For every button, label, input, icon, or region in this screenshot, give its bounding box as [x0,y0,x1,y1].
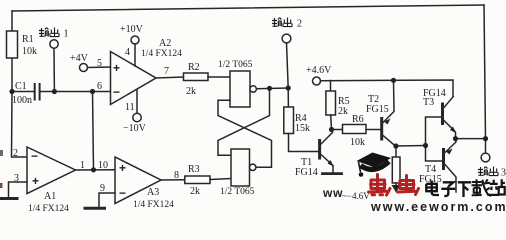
ground T1 emitter [323,172,342,175]
svg-text:−10V: −10V [123,123,147,134]
wire output3 stub [485,139,487,154]
node feedback top [90,89,95,94]
node output2 R4 [286,85,291,90]
wire pin4 [134,44,136,66]
svg-text:R2: R2 [188,62,200,73]
svg-text:ww: ww [322,186,343,200]
wire A1 pin3 to ground [9,182,28,197]
watermark bug2 [398,176,419,195]
wire R3 to gate2 [210,179,231,180]
terminal +4.6V [313,77,321,85]
svg-text:1: 1 [80,160,85,171]
CJK glyph strokes: 输出 labels [39,18,506,179]
svg-text:1/4 FX124: 1/4 FX124 [133,200,174,210]
transistor T2 collector [383,136,396,147]
svg-text:2: 2 [297,19,302,30]
wire A3 pin8 out [161,179,185,181]
svg-text:R6: R6 [352,114,364,125]
arrow T3 emitter [450,127,456,134]
arrow T2 emitter pnp [384,119,391,125]
node C1 left rail [9,89,14,94]
ground A1 pin3 [0,197,17,200]
transistor T4 collector down [445,165,456,193]
svg-text:2k: 2k [190,186,200,197]
terminal output3 [481,153,490,162]
wire R6 to T2 base [366,129,380,131]
gate U1 output bubble [250,86,256,92]
wire output1 down [53,48,55,91]
wire C1 line left [12,91,35,93]
svg-text:+4.6V: +4.6V [306,65,332,76]
watermark text zi [441,182,455,196]
wire T2 collector node line [396,145,426,148]
transistor T1 base bar [318,141,321,159]
resistor R5 [326,91,336,115]
gate U1 1/2 T065 top [230,71,250,107]
terminal +4V [80,64,88,72]
svg-text:10: 10 [98,160,108,171]
watermark cap brim [361,162,390,170]
svg-text:C1: C1 [15,81,27,92]
svg-text:+: + [113,61,120,75]
node output3 frame [483,136,488,141]
wire gate1 output line [256,87,288,90]
svg-text:1/4 FX124: 1/4 FX124 [141,49,182,59]
wire R4 to T1 base [289,134,319,152]
svg-text:+4V: +4V [70,53,89,64]
node R5 R6 T1c [329,127,334,132]
wire node to R6 [332,129,343,131]
transistor T3 base bar [441,104,444,124]
svg-text:1/2 T065: 1/2 T065 [218,60,253,70]
node T3 T4 base [423,143,428,148]
transistor T3 emitter [444,121,456,139]
op-amp A1 [27,147,76,194]
watermark text xia [458,182,472,197]
wire right frame down to output3 node [484,5,486,139]
svg-text:7: 7 [164,66,169,77]
svg-text:+: + [32,174,39,188]
svg-text:3: 3 [14,173,19,184]
node output1 tap [52,89,57,94]
transistor T2 emitter to rail [383,80,394,122]
svg-text:2k: 2k [186,86,196,97]
wire T3 base [426,117,442,146]
wire R2 to gate1 [208,76,230,78]
svg-text:www.eeworm.com: www.eeworm.com [370,200,506,212]
wire R5 top [330,81,332,92]
svg-text:100n: 100n [12,95,32,106]
gate U2 output bubble [250,164,256,170]
terminal output2 [282,34,291,43]
wire A1 output to A3 pin10 [76,169,116,171]
svg-text:9: 9 [100,183,105,194]
svg-text:2k: 2k [338,106,348,117]
node gate1 out cross [267,86,272,91]
svg-text:6: 6 [97,81,102,92]
transistor T1 collector [321,130,333,145]
wire +4.6V rail [321,80,454,96]
wire output2 down to R4 [287,43,289,107]
wire A2 pin7 out [156,77,184,78]
wire left rail lower [12,92,28,158]
watermark bug1 [369,175,391,196]
svg-text:R3: R3 [188,164,200,175]
svg-text:−: − [119,186,126,200]
svg-text:8: 8 [174,170,179,181]
wire R5 bottom to node [330,115,333,130]
svg-text:R1: R1 [22,34,34,45]
wire R7 bottom [395,183,397,185]
scan artifact left edge upper [0,150,3,156]
svg-text:~−4.6V: ~−4.6V [342,191,370,201]
wire top feedback rail [12,5,484,11]
transistor T3 collector [444,97,453,108]
svg-text:3: 3 [501,168,506,179]
svg-text:A2: A2 [159,38,171,49]
svg-text:1: 1 [64,29,69,40]
terminal output1 [50,40,58,48]
resistor R3 [185,176,210,184]
svg-text:−: − [113,85,120,99]
wire load resistor to -4.6V [395,146,397,157]
op-amp A2 [111,52,157,105]
terminal +10V [131,36,139,44]
wire pin11 [136,90,138,114]
transistor T4 emitter top [445,139,456,153]
svg-text:A1: A1 [44,191,56,202]
watermark text dian [426,181,439,196]
arrow T1 emitter [328,160,334,167]
svg-text:+10V: +10V [120,24,144,35]
svg-text:15k: 15k [295,123,310,134]
op-amp A3 [115,157,161,204]
gate U2 1/2 T065 bottom [231,149,250,186]
labels latin [12,24,446,214]
watermark cap top [357,153,392,168]
svg-text:+: + [119,161,126,175]
resistor R6 [343,125,367,134]
label output2 chinese shu [272,18,292,27]
terminal -10V [133,113,141,121]
svg-text:4: 4 [125,47,130,58]
watermark text zhan [489,179,505,195]
svg-text:10k: 10k [22,46,37,57]
wire C1 line to pin6 [40,91,111,93]
watermark text zai [472,179,492,196]
opamp plus minus signs [31,61,126,200]
resistor R7 load [392,157,400,183]
node T2 emitter rail [391,78,396,83]
wire A3 pin9 to ground [99,193,115,207]
wire cross-couple P1 gate1out to gate2in [218,88,270,155]
svg-text:2: 2 [13,148,18,159]
wire A1 feedback vertical [93,92,94,170]
svg-text:10k: 10k [350,137,365,148]
resistor R2 [184,73,209,81]
svg-text:5: 5 [97,58,102,69]
arrow -4.6V supply [392,185,401,193]
wire left rail [11,11,13,92]
svg-text:FG14: FG14 [295,167,318,178]
transistor T4 base bar [442,150,445,169]
svg-text:−: − [31,149,38,163]
watermark cap tassel [359,162,361,172]
svg-text:11: 11 [125,102,135,113]
ground A3 pin9 [85,207,105,210]
capacitor C1 [35,84,40,100]
svg-text:A3: A3 [147,187,159,198]
wire T4 base [426,146,443,162]
svg-text:T3: T3 [423,97,434,108]
wire cross-couple P2 gate2out to gate1in [218,100,272,167]
wire emitters to output3 [456,138,486,140]
svg-text:1/2 T065: 1/2 T065 [220,187,255,197]
arrow T4 emitter pnp [446,149,453,155]
transistor T2 base bar [380,119,383,140]
label output1 chinese shu [39,28,59,37]
node T3 T4 emitter [453,136,458,141]
wire +4V to pin5 [88,66,111,69]
node A1 output [91,167,96,172]
label output3 chinese shu [478,167,498,176]
watermark group [322,153,506,215]
scan artifact left edge lower [0,183,3,188]
svg-text:FG15: FG15 [366,104,389,115]
transistor T1 emitter [321,155,333,172]
node T2 collector [393,143,398,148]
resistor R1 [7,31,18,58]
svg-text:1/4 FX124: 1/4 FX124 [28,204,69,212]
resistor R4 [284,107,294,134]
